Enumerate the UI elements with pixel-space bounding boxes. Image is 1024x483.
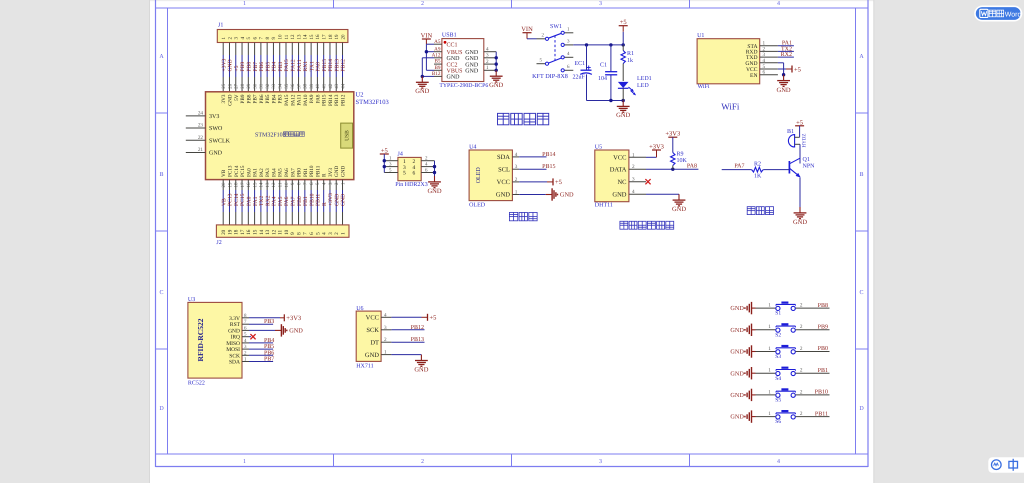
svg-text:GND: GND <box>560 192 574 199</box>
svg-text:KFT DIP-8X8: KFT DIP-8X8 <box>532 73 568 80</box>
RFID IRQ no-connect <box>249 334 256 339</box>
svg-text:B: B <box>859 172 863 178</box>
svg-text:16: 16 <box>246 229 252 235</box>
module U3 RFID-RC522 <box>188 297 249 387</box>
J4 gnd <box>427 161 441 195</box>
svg-text:20: 20 <box>221 182 227 188</box>
svg-text:40: 40 <box>315 83 321 89</box>
svg-text:GND: GND <box>672 206 686 213</box>
OLED net labels <box>519 152 555 170</box>
svg-text:GND: GND <box>612 191 626 198</box>
svg-text:J4: J4 <box>398 152 403 158</box>
svg-text:Q1: Q1 <box>803 157 810 163</box>
svg-text:PA0: PA0 <box>246 168 252 177</box>
svg-text:PA12: PA12 <box>290 59 296 71</box>
svg-text:PA4: PA4 <box>271 168 277 177</box>
svg-text:PB4: PB4 <box>271 94 277 103</box>
svg-text:13: 13 <box>296 34 302 40</box>
svg-text:DHT11: DHT11 <box>595 202 613 208</box>
svg-text:7: 7 <box>303 232 309 235</box>
svg-text:4: 4 <box>763 58 766 64</box>
svg-text:USB: USB <box>345 130 351 141</box>
svg-text:GND: GND <box>730 327 744 334</box>
svg-text:19: 19 <box>227 229 233 235</box>
svg-text:USB1: USB1 <box>442 33 457 39</box>
svg-text:D: D <box>159 406 164 412</box>
switch S6 <box>730 410 829 425</box>
svg-text:4: 4 <box>486 47 489 53</box>
svg-text:PC13: PC13 <box>227 165 233 177</box>
svg-text:PB12: PB12 <box>411 325 424 331</box>
svg-text:PB13: PB13 <box>334 59 340 72</box>
svg-text:GND: GND <box>341 194 347 206</box>
svg-text:U2: U2 <box>356 92 364 99</box>
svg-text:PB7: PB7 <box>253 62 259 72</box>
svg-text:PB15: PB15 <box>322 59 328 72</box>
svg-text:30: 30 <box>252 83 258 89</box>
svg-text:S3: S3 <box>775 354 781 360</box>
svg-text:PA8: PA8 <box>687 163 697 169</box>
svg-text:A: A <box>859 54 864 60</box>
svg-text:3: 3 <box>599 459 602 465</box>
sheet border frame <box>156 0 869 467</box>
svg-text:PB1: PB1 <box>303 168 309 177</box>
svg-text:2: 2 <box>800 411 803 417</box>
svg-text:R1: R1 <box>627 51 634 57</box>
svg-text:PB13: PB13 <box>334 94 340 106</box>
svg-text:TX2: TX2 <box>259 196 265 206</box>
buzzer B1 <box>787 129 808 148</box>
svg-text:NC: NC <box>617 179 626 186</box>
svg-text:+5: +5 <box>234 65 240 71</box>
HX711 gnd <box>391 355 428 374</box>
svg-text:13: 13 <box>265 182 271 188</box>
wires U2 to J2 with net labels <box>221 180 346 225</box>
DHT11 data wire PA8 <box>646 163 698 171</box>
HX711 vcc +5 <box>391 314 436 322</box>
connector J2 <box>216 225 349 246</box>
svg-text:34: 34 <box>278 83 284 89</box>
bottom right toolbar <box>988 457 1024 473</box>
svg-text:R2: R2 <box>754 161 761 167</box>
svg-text:35: 35 <box>284 83 290 89</box>
svg-text:3: 3 <box>328 232 334 235</box>
svg-text:PB11: PB11 <box>815 411 828 417</box>
svg-text:SCL: SCL <box>498 166 510 173</box>
svg-text:PB10: PB10 <box>815 390 828 396</box>
switch SW1 <box>532 24 573 80</box>
svg-text:MISO: MISO <box>226 341 240 347</box>
OLED gnd <box>519 188 574 200</box>
svg-text:38: 38 <box>303 83 309 89</box>
svg-text:GND: GND <box>793 219 807 226</box>
svg-text:PB12: PB12 <box>341 59 347 72</box>
svg-text:PA3: PA3 <box>265 168 271 177</box>
svg-text:PB6: PB6 <box>259 62 265 72</box>
svg-text:3V3: 3V3 <box>209 114 219 120</box>
svg-text:CC1: CC1 <box>447 42 458 48</box>
svg-text:25: 25 <box>221 83 227 89</box>
svg-text:8: 8 <box>296 232 302 235</box>
svg-text:S6: S6 <box>775 419 781 425</box>
svg-text:C: C <box>859 290 863 296</box>
svg-text:IRQ: IRQ <box>231 335 241 341</box>
svg-text:GND: GND <box>465 62 479 68</box>
svg-text:3V3: 3V3 <box>328 168 334 177</box>
svg-text:PB8: PB8 <box>818 303 828 309</box>
svg-text:GND: GND <box>365 352 379 359</box>
U2 left pins SWD <box>186 110 231 156</box>
svg-text:GND: GND <box>414 366 428 373</box>
svg-text:5: 5 <box>403 171 406 177</box>
svg-text:PB6: PB6 <box>264 350 274 356</box>
svg-text:VB: VB <box>221 198 227 206</box>
LED1 <box>618 76 652 101</box>
svg-text:U1: U1 <box>697 33 704 39</box>
svg-text:GND: GND <box>496 192 510 199</box>
svg-text:PB8: PB8 <box>246 94 252 103</box>
svg-text:33: 33 <box>271 83 277 89</box>
svg-text:19: 19 <box>334 34 340 40</box>
svg-text:PA1: PA1 <box>253 168 259 177</box>
svg-text:2: 2 <box>515 177 518 183</box>
svg-text:1: 1 <box>632 152 635 158</box>
R2 base resistor <box>722 161 790 179</box>
OLED title <box>509 212 537 220</box>
svg-text:16: 16 <box>246 182 252 188</box>
svg-text:PB9: PB9 <box>240 62 246 72</box>
svg-text:10: 10 <box>284 182 290 188</box>
svg-text:+3V3: +3V3 <box>221 59 227 72</box>
svg-text:MOSI: MOSI <box>226 347 240 353</box>
svg-text:RX2: RX2 <box>781 52 792 58</box>
RFID 3.3V power <box>249 314 301 322</box>
svg-text:PB10: PB10 <box>309 165 315 177</box>
svg-text:RX2: RX2 <box>265 195 271 206</box>
svg-text:3: 3 <box>632 177 635 183</box>
svg-text:PA4: PA4 <box>272 196 278 206</box>
svg-text:S2: S2 <box>775 332 781 338</box>
svg-text:GND: GND <box>209 151 223 157</box>
svg-text:4: 4 <box>322 232 328 235</box>
USB1 VIN power <box>421 32 434 70</box>
svg-text:S4: S4 <box>775 376 781 382</box>
svg-text:41: 41 <box>321 83 327 89</box>
svg-text:EC1: EC1 <box>575 61 586 67</box>
svg-text:SDA: SDA <box>229 360 240 366</box>
switch S3 <box>730 345 829 360</box>
svg-text:6: 6 <box>413 171 416 177</box>
svg-text:5: 5 <box>315 232 321 235</box>
svg-text:26: 26 <box>227 83 233 89</box>
capacitor C1 104 <box>598 63 617 82</box>
svg-text:PA7: PA7 <box>734 164 744 170</box>
svg-text:GND: GND <box>227 94 233 105</box>
svg-text:GND: GND <box>730 305 744 312</box>
svg-text:+3V3: +3V3 <box>328 193 334 206</box>
svg-text:B9: B9 <box>434 65 440 71</box>
svg-text:PA6: PA6 <box>284 196 290 206</box>
svg-text:PA0: PA0 <box>247 196 253 206</box>
svg-text:GND: GND <box>427 188 441 195</box>
svg-text:PB11: PB11 <box>316 194 322 206</box>
wires J1 to U2 with net labels <box>221 43 346 92</box>
svg-text:17: 17 <box>240 229 246 235</box>
svg-text:PA1: PA1 <box>253 196 259 206</box>
svg-text:2: 2 <box>421 1 424 7</box>
svg-text:+3V3: +3V3 <box>286 315 301 322</box>
svg-text:14: 14 <box>259 182 265 188</box>
svg-text:GND: GND <box>730 370 744 377</box>
svg-text:13: 13 <box>265 229 271 235</box>
svg-text:B5: B5 <box>434 59 440 65</box>
svg-text:17: 17 <box>240 182 246 188</box>
connector USB1 TYPEC <box>432 33 497 90</box>
svg-text:10: 10 <box>278 34 284 40</box>
svg-text:15: 15 <box>309 34 315 40</box>
USB1 left gnd wire <box>415 58 434 95</box>
svg-text:1k: 1k <box>627 57 633 64</box>
svg-text:+3V3: +3V3 <box>665 131 680 138</box>
svg-text:HYDZ: HYDZ <box>802 134 808 148</box>
svg-text:PB7: PB7 <box>264 357 274 363</box>
svg-text:3: 3 <box>486 53 489 59</box>
title power circuit <box>498 113 549 124</box>
svg-text:VCC: VCC <box>366 315 379 322</box>
svg-text:29: 29 <box>246 83 252 89</box>
svg-text:31: 31 <box>259 83 265 89</box>
svg-text:PB3: PB3 <box>264 319 274 325</box>
svg-text:PB14: PB14 <box>542 152 555 158</box>
svg-text:B1: B1 <box>787 129 794 135</box>
svg-text:2: 2 <box>486 59 489 65</box>
svg-text:PC13: PC13 <box>228 193 234 206</box>
svg-text:36: 36 <box>290 83 296 89</box>
svg-text:VIN: VIN <box>421 32 433 39</box>
transistor Q1 NPN <box>789 144 815 177</box>
svg-text:1: 1 <box>768 324 771 330</box>
svg-text:PA6: PA6 <box>284 168 290 177</box>
svg-text:10K: 10K <box>677 158 688 164</box>
svg-text:GND: GND <box>465 69 479 75</box>
svg-text:PC15: PC15 <box>240 165 246 177</box>
connector J4 Pin HDR2X3 <box>384 152 434 189</box>
buzzer title <box>747 207 773 215</box>
buzzer +5 <box>795 119 804 137</box>
svg-text:20: 20 <box>221 229 227 235</box>
module U1 WiFi <box>697 33 778 90</box>
svg-text:GND: GND <box>465 56 479 62</box>
svg-text:PA8: PA8 <box>316 62 322 72</box>
svg-text:GND: GND <box>730 414 744 421</box>
svg-text:PB10: PB10 <box>309 193 315 206</box>
svg-text:PB1: PB1 <box>818 368 828 374</box>
svg-text:2: 2 <box>384 337 387 343</box>
svg-text:LED: LED <box>637 83 649 89</box>
svg-text:R: R <box>322 202 328 206</box>
svg-text:21: 21 <box>198 147 204 153</box>
svg-text:12: 12 <box>290 34 296 40</box>
svg-text:2: 2 <box>800 303 803 309</box>
buzzer gnd <box>793 178 807 226</box>
svg-text:27: 27 <box>234 83 240 89</box>
svg-text:HX711: HX711 <box>356 364 373 370</box>
svg-text:PB0: PB0 <box>297 168 303 177</box>
svg-text:PB3: PB3 <box>278 62 284 72</box>
switch S1 <box>730 302 829 317</box>
svg-text:A9: A9 <box>434 46 441 52</box>
svg-text:Pin HDR2X3: Pin HDR2X3 <box>395 182 428 188</box>
VIN power at SW1 <box>521 26 536 39</box>
svg-text:D: D <box>859 406 864 412</box>
svg-text:15: 15 <box>252 182 258 188</box>
svg-text:GND: GND <box>730 349 744 356</box>
svg-text:+5: +5 <box>794 66 801 73</box>
resistor R1 1k <box>621 45 634 81</box>
svg-text:18: 18 <box>328 34 334 40</box>
svg-text:9: 9 <box>290 232 296 235</box>
svg-text:+3V3: +3V3 <box>649 143 664 150</box>
svg-text:3.3V: 3.3V <box>229 316 240 322</box>
+5 power <box>619 19 628 32</box>
svg-text:WiFi: WiFi <box>721 101 740 111</box>
svg-text:GND: GND <box>447 75 461 81</box>
svg-text:1: 1 <box>768 346 771 352</box>
svg-text:104: 104 <box>598 76 607 82</box>
svg-text:PB6: PB6 <box>259 94 265 103</box>
svg-text:1K: 1K <box>754 173 762 179</box>
svg-text:PA5: PA5 <box>278 168 284 177</box>
svg-text:GND: GND <box>334 166 340 177</box>
svg-text:PB0: PB0 <box>818 346 828 352</box>
svg-text:PC14: PC14 <box>234 165 240 177</box>
svg-text:A5: A5 <box>434 39 441 45</box>
U2 top pin numbers and names <box>221 83 347 106</box>
DHT11 NC no-connect <box>645 179 650 184</box>
svg-text:PA7: PA7 <box>290 168 296 177</box>
svg-text:PA9: PA9 <box>309 94 315 103</box>
svg-text:GND: GND <box>465 50 479 56</box>
svg-text:32: 32 <box>265 83 271 89</box>
svg-text:J1: J1 <box>218 23 223 29</box>
MCU U2 STM32F103 <box>206 92 389 180</box>
Word export button <box>975 6 1022 20</box>
svg-text:22: 22 <box>198 135 204 141</box>
svg-text:PA10: PA10 <box>303 94 309 106</box>
svg-text:PA8: PA8 <box>315 94 321 103</box>
svg-text:SCK: SCK <box>366 327 379 334</box>
svg-text:GND: GND <box>730 392 744 399</box>
svg-text:PB7: PB7 <box>253 94 259 103</box>
svg-text:LED1: LED1 <box>637 76 652 82</box>
svg-text:12: 12 <box>271 182 277 188</box>
svg-text:NPN: NPN <box>803 164 816 170</box>
svg-text:C1: C1 <box>600 63 607 69</box>
svg-text:3V3: 3V3 <box>221 94 227 103</box>
svg-text:3: 3 <box>384 325 387 331</box>
svg-text:2: 2 <box>800 389 803 395</box>
svg-text:4: 4 <box>515 152 518 158</box>
svg-text:2: 2 <box>421 459 424 465</box>
svg-text:TYPEC-290D-BCP6: TYPEC-290D-BCP6 <box>439 83 488 89</box>
power circuit gnd <box>616 101 630 120</box>
WiFi gnd <box>777 63 791 94</box>
svg-text:+5: +5 <box>555 179 562 186</box>
svg-text:PA15: PA15 <box>284 94 290 106</box>
svg-text:VCC: VCC <box>497 179 510 186</box>
zone labels <box>159 1 864 465</box>
svg-text:14: 14 <box>303 34 309 40</box>
svg-text:PB9: PB9 <box>240 94 246 103</box>
HX711 net labels <box>391 325 424 343</box>
display U4 OLED <box>469 145 519 209</box>
svg-text:GND: GND <box>341 166 347 177</box>
svg-text:19: 19 <box>227 182 233 188</box>
svg-text:PA11: PA11 <box>297 59 303 71</box>
svg-text:5V: 5V <box>234 94 240 101</box>
svg-text:PB3: PB3 <box>278 94 284 103</box>
connector J1 <box>217 23 348 43</box>
svg-text:GND: GND <box>616 112 630 119</box>
svg-text:PB8: PB8 <box>247 62 253 72</box>
svg-text:SW1: SW1 <box>550 24 562 30</box>
svg-text:PB14: PB14 <box>328 94 334 106</box>
svg-text:PB11: PB11 <box>315 165 321 177</box>
svg-text:GND: GND <box>777 87 791 94</box>
DHT11 title <box>620 221 674 229</box>
svg-text:2: 2 <box>800 368 803 374</box>
svg-text:GND: GND <box>289 328 303 335</box>
svg-text:PA5: PA5 <box>278 196 284 206</box>
svg-text:18: 18 <box>234 229 240 235</box>
svg-text:42: 42 <box>328 83 334 89</box>
svg-text:16: 16 <box>315 34 321 40</box>
DHT11 vcc +3V3 <box>646 143 664 157</box>
svg-text:PB5: PB5 <box>264 344 274 350</box>
svg-text:GND: GND <box>489 82 503 89</box>
DHT11 gnd <box>646 194 686 213</box>
svg-text:RFID-RC522: RFID-RC522 <box>196 318 205 361</box>
svg-text:PB5: PB5 <box>265 94 271 103</box>
resistor R9 10K <box>665 131 687 170</box>
WiFi vcc +5 <box>778 66 801 74</box>
svg-text:DATA: DATA <box>610 166 627 173</box>
svg-text:PB1: PB1 <box>303 196 309 206</box>
svg-text:11: 11 <box>278 229 284 234</box>
RFID net labels <box>249 319 274 362</box>
svg-text:PA12: PA12 <box>290 94 296 106</box>
svg-text:RX1: RX1 <box>303 61 309 72</box>
svg-text:PB14: PB14 <box>328 59 334 72</box>
svg-text:CC2: CC2 <box>447 62 458 68</box>
svg-text:1: 1 <box>243 459 246 465</box>
svg-text:WiFi: WiFi <box>698 84 710 90</box>
svg-text:PA2: PA2 <box>259 168 265 177</box>
svg-text:37: 37 <box>296 83 302 89</box>
svg-text:GND: GND <box>334 194 340 206</box>
svg-text:4: 4 <box>777 459 780 465</box>
USB1 right gnd wire <box>489 52 503 89</box>
svg-text:VBUS: VBUS <box>447 69 463 75</box>
svg-text:SDA: SDA <box>497 154 510 161</box>
svg-text:44: 44 <box>340 83 346 89</box>
svg-text:GND: GND <box>447 56 461 62</box>
svg-text:10: 10 <box>284 229 290 235</box>
svg-text:S1: S1 <box>775 311 781 317</box>
svg-text:4: 4 <box>632 189 635 195</box>
svg-text:VIN: VIN <box>521 26 533 33</box>
svg-text:PA7: PA7 <box>290 196 296 206</box>
